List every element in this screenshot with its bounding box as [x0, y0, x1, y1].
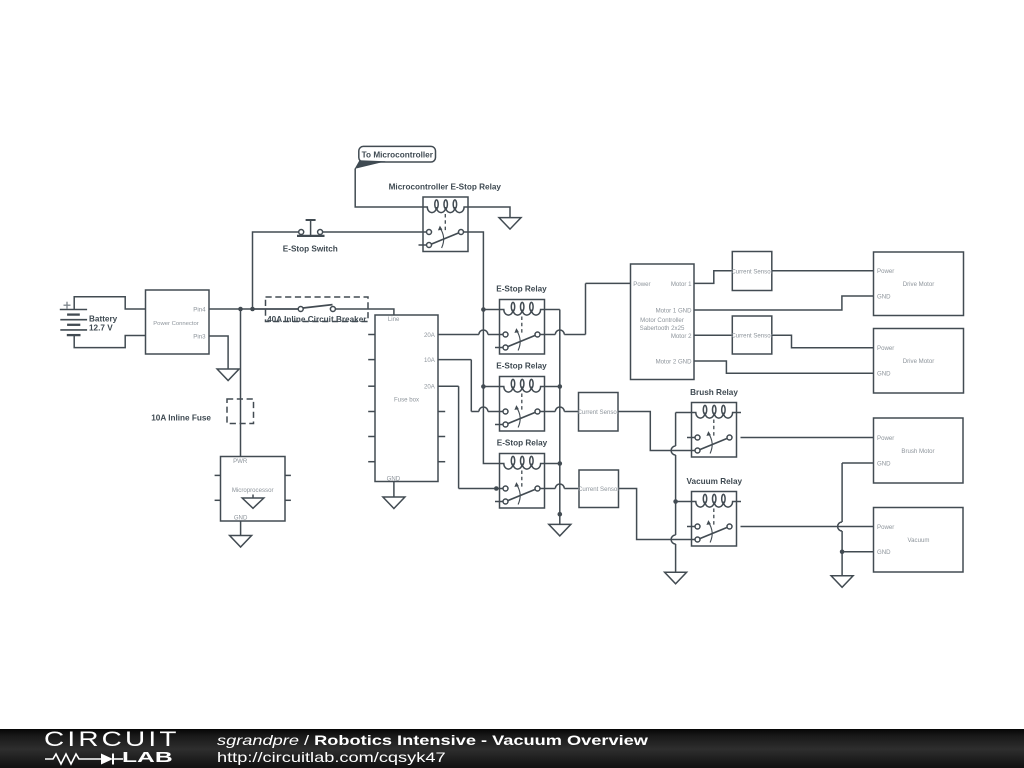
svg-text:Microprocessor: Microprocessor [232, 487, 274, 494]
wire U7 output to vacuum relay input [619, 489, 696, 540]
battery V1 12.7V plus sign [64, 304, 71, 306]
fusebox U2 box [375, 315, 438, 482]
svg-text:Power: Power [633, 281, 650, 288]
wire E-Stop switch to relay [323, 231, 427, 233]
battery V1 plates [60, 309, 87, 311]
fusebox right unconnected pin stubs [438, 411, 445, 413]
svg-text:Motor 1: Motor 1 [671, 281, 692, 288]
wire U5 output to drive motor 1 Power [772, 270, 874, 272]
breaker CB1 dashed box [266, 297, 369, 322]
relay K5 coil right stub [737, 412, 742, 414]
microprocessor internal ground symbol [252, 495, 254, 499]
svg-text:Power: Power [877, 268, 894, 275]
ground under motor GND bus [831, 576, 853, 588]
pushbutton SW1 E-Stop Switch [299, 230, 304, 235]
relay coil ground bus (brush/vacuum) [676, 412, 692, 414]
wire relay K4 output to current sensor [540, 488, 555, 490]
relay K4 [495, 454, 545, 509]
wire Pin4 down through 10A fuse to microprocessor [240, 309, 242, 457]
wire relay2 coil right to bus [545, 386, 560, 388]
relay K5 [687, 403, 737, 458]
svg-text:Motor 2: Motor 2 [671, 333, 692, 340]
flag To Microcontroller [359, 146, 436, 162]
svg-text:20A: 20A [424, 332, 436, 339]
wire relay K5 output to brush motor [741, 437, 874, 439]
svg-text:Drive Motor: Drive Motor [903, 358, 935, 365]
current sensor U6 box [579, 393, 619, 432]
ground under microprocessor [230, 536, 252, 548]
svg-text:Motor 1 GND: Motor 1 GND [656, 307, 692, 314]
svg-text:Power: Power [877, 435, 894, 442]
wire Motor2 GND to drive motor 2 GND [694, 361, 874, 373]
svg-text:Power: Power [877, 524, 894, 531]
relay K1 [419, 197, 469, 252]
svg-text:PWR: PWR [233, 458, 248, 465]
node dot ground bus lower [558, 512, 563, 517]
ground under Pin3 [217, 369, 239, 381]
svg-text:GND: GND [877, 549, 891, 556]
node dot bus / vacuum coil [673, 499, 678, 504]
node junction dot Pin4/e-stop [250, 307, 255, 312]
CircuitLab logo CIRCUIT wordmark [44, 728, 180, 752]
drive motor M2 box [874, 329, 964, 394]
wire coil bus to relay1 coil [483, 309, 499, 311]
svg-text:Line: Line [388, 316, 400, 323]
svg-text:Current Sensor: Current Sensor [578, 486, 619, 493]
svg-text:GND: GND [877, 371, 891, 378]
svg-text:GND: GND [877, 460, 891, 467]
svg-text:Battery: Battery [89, 314, 118, 323]
wire junction up to E-Stop switch [253, 232, 299, 309]
fusebox left pin stubs [368, 334, 375, 336]
current sensor U7 box [579, 470, 619, 508]
svg-text:Microcontroller E-Stop Relay: Microcontroller E-Stop Relay [389, 182, 502, 191]
breaker CB1 switch [298, 307, 303, 312]
svg-text:E-Stop Relay: E-Stop Relay [497, 438, 548, 447]
svg-text:E-Stop Switch: E-Stop Switch [283, 244, 338, 253]
wire battery+ to power connector [74, 297, 145, 310]
node dot ground bus / relay2 coil [558, 384, 563, 389]
svg-text:40A Inline Circuit Breaker: 40A Inline Circuit Breaker [267, 315, 367, 324]
svg-text:Current Sensor: Current Sensor [731, 268, 772, 275]
wire fusebox 10A to relay K3 input [438, 359, 471, 361]
svg-text:Current Sensor: Current Sensor [731, 333, 772, 340]
CircuitLab logo LAB wordmark [122, 750, 173, 766]
wire Pin4 net [209, 308, 298, 310]
wire Motor2 to current sensor U8 [694, 334, 732, 336]
current sensor U8 box [732, 316, 772, 354]
wire breaker to fuse box Line [335, 309, 394, 315]
wire Motor1 GND to drive motor 1 GND [694, 296, 874, 310]
svg-text:E-Stop Relay: E-Stop Relay [496, 361, 547, 370]
svg-text:E-Stop Relay: E-Stop Relay [496, 284, 547, 293]
coil ground bus vertical [545, 309, 560, 311]
svg-text:Vacuum Relay: Vacuum Relay [687, 477, 743, 486]
ground at K1 coil [499, 218, 521, 230]
svg-text:Power: Power [877, 345, 894, 352]
wire coil bus to relay2 coil [483, 386, 499, 388]
svg-text:20A: 20A [424, 384, 436, 391]
svg-text:Pin3: Pin3 [193, 333, 206, 340]
CircuitLab logo resistor-diode glyph [44, 751, 126, 767]
brush motor M3 box [874, 418, 964, 483]
fuse F1 10A Inline Fuse dashed box [227, 399, 254, 424]
footer url line [217, 749, 446, 765]
vacuum M4 box [874, 508, 964, 573]
svg-text:GND: GND [877, 293, 891, 300]
ground under coil bus [549, 524, 571, 536]
svg-text:12.7 V: 12.7 V [89, 324, 113, 333]
wire brush motor GND to ground bus [842, 462, 873, 464]
relay K6 [687, 492, 737, 547]
wire Motor1 to current sensor U5 [694, 271, 732, 284]
wire bus to vacuum coil [676, 501, 692, 503]
svg-text:Power Connector: Power Connector [153, 321, 199, 327]
microprocessor GND pin wire [240, 521, 242, 536]
microprocessor side pin stubs [215, 474, 221, 476]
relay K2 [495, 300, 545, 355]
current sensor U5 box [732, 252, 772, 291]
wire U8 output to drive motor 2 Power [772, 335, 874, 347]
svg-text:Pin4: Pin4 [193, 306, 206, 313]
wire vacuum GND to bus [842, 551, 873, 553]
node dot vacuum GND junction [840, 550, 845, 555]
connector J1 Power Connector box [146, 290, 210, 354]
footer title line [217, 732, 648, 748]
wire fusebox 20A to relay K2 input [438, 334, 479, 336]
wire relay K6 output to vacuum [741, 526, 874, 528]
drive motor M1 box [874, 252, 964, 316]
wire fusebox 20A#2 to relay K4 input [438, 385, 459, 387]
node dot ground bus / relay3 coil [558, 461, 563, 466]
svg-text:Brush Motor: Brush Motor [901, 448, 934, 455]
svg-text:Drive Motor: Drive Motor [903, 281, 935, 288]
svg-text:Fuse box: Fuse box [394, 397, 419, 404]
node junction dot Pin4/fuse [238, 307, 243, 312]
node dot at relay K4 input [494, 486, 499, 491]
svg-text:Vacuum: Vacuum [908, 537, 930, 544]
svg-text:Motor 2 GND: Motor 2 GND [656, 358, 692, 365]
node dot coil bus / relay1 coil [481, 307, 486, 312]
relay K3 [495, 377, 545, 432]
svg-text:10A: 10A [424, 357, 436, 364]
node dot coil bus / relay2 coil [481, 384, 486, 389]
svg-text:Current Sensor: Current Sensor [578, 409, 619, 416]
relay K6 coil right stub [737, 501, 742, 503]
wire K1 coil right to ground [468, 207, 510, 218]
motor controller U4 box [631, 264, 695, 380]
svg-text:Sabertooth 2x25: Sabertooth 2x25 [640, 325, 685, 332]
fusebox GND pin wire [393, 482, 395, 498]
wire relay K2 output to motor controller Power [540, 334, 555, 336]
svg-text:To Microcontroller: To Microcontroller [362, 150, 434, 159]
wire U6 output to brush relay input [618, 412, 695, 451]
wire to 40A breaker [253, 308, 299, 310]
svg-text:GND: GND [234, 514, 248, 521]
svg-text:Brush Relay: Brush Relay [690, 388, 738, 397]
microprocessor U3 box [221, 457, 286, 522]
wire flag to relay coil [355, 169, 423, 208]
svg-text:10A Inline Fuse: 10A Inline Fuse [151, 413, 211, 422]
wire battery- to power connector [74, 335, 145, 348]
ground under fuse box [383, 497, 405, 509]
ground under brush/vacuum coil bus [665, 572, 687, 584]
svg-text:Motor Controller: Motor Controller [640, 317, 684, 324]
wire Pin3 to ground [209, 336, 228, 369]
wire K1 common output to coil bus [464, 232, 500, 464]
wire relay3 coil right to bus [545, 463, 560, 465]
wire relay K3 output to current sensor [540, 411, 555, 413]
